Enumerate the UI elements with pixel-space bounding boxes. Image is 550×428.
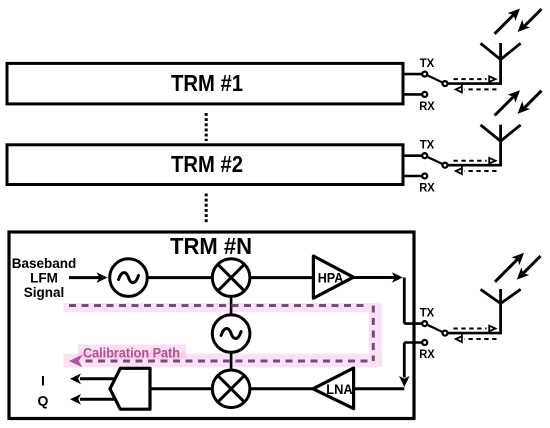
mixer MX2 bbox=[212, 370, 250, 408]
dashed TX direction arrow 3 bbox=[454, 326, 496, 333]
wire OSC2 to MX2 bbox=[230, 352, 233, 372]
switch pole circle 2 bbox=[443, 163, 448, 168]
TRM #N box bbox=[9, 232, 414, 419]
radiation arrow out 2 bbox=[495, 90, 520, 115]
svg-text:RX: RX bbox=[419, 99, 435, 113]
calibration path arrowhead bbox=[69, 355, 83, 368]
svg-text:Baseband: Baseband bbox=[12, 256, 77, 271]
antenna assembly 2 (for TRM #2) bbox=[403, 90, 542, 194]
oscillator OSC2 (LO) bbox=[212, 315, 250, 353]
wire TX stub 3 bbox=[404, 322, 421, 325]
amplifier LNA bbox=[313, 368, 354, 409]
svg-text:TX: TX bbox=[420, 138, 435, 152]
switch pole circle 3 bbox=[443, 331, 448, 336]
svg-text:I: I bbox=[41, 373, 45, 389]
antenna assembly 1 (for TRM #1) bbox=[403, 9, 542, 114]
label Baseband LFM Signal bbox=[12, 256, 77, 300]
dashed TX direction arrow 1 bbox=[454, 76, 496, 83]
amplifier HPA bbox=[313, 256, 353, 298]
radiation arrow out 3 bbox=[495, 253, 524, 282]
switch pole circle 1 bbox=[443, 81, 448, 86]
radiation arrow out 1 bbox=[495, 9, 520, 34]
radiation arrow in 1 bbox=[518, 9, 542, 32]
svg-text:RX: RX bbox=[419, 181, 435, 195]
calibration path highlight band bottom bbox=[64, 354, 378, 368]
wire TX stub 2 bbox=[403, 154, 422, 157]
dotted connector between TRM #2 and TRM #N bbox=[205, 194, 208, 223]
svg-text:Calibration Path: Calibration Path bbox=[83, 346, 180, 361]
RX port circle 3 bbox=[422, 340, 427, 345]
antenna 1 bbox=[481, 43, 521, 84]
switch arm 3 bbox=[428, 325, 442, 332]
TX port circle 3 bbox=[422, 321, 427, 326]
svg-text:TRM #1: TRM #1 bbox=[171, 70, 243, 96]
TRM #1 box bbox=[7, 63, 403, 104]
svg-text:HPA: HPA bbox=[318, 269, 344, 285]
calibration path text highlight bbox=[78, 345, 186, 361]
wire RX stub 3 bbox=[404, 341, 421, 344]
svg-text:RX: RX bbox=[419, 347, 435, 361]
wire MX1 to HPA bbox=[249, 276, 314, 279]
switch arm 1 bbox=[428, 76, 442, 83]
svg-text:Q: Q bbox=[38, 393, 49, 409]
wire switch to antenna 3 bbox=[448, 332, 502, 335]
arrow baseband input to oscillator OSC1 bbox=[69, 272, 108, 283]
TRM #2 box bbox=[7, 145, 403, 185]
TX port circle 1 bbox=[422, 72, 427, 77]
antenna assembly 3 (for TRM #N) bbox=[404, 253, 540, 361]
calibration path highlight band right vertical bbox=[369, 303, 382, 367]
RX port circle 1 bbox=[422, 92, 427, 97]
calibration path dashed line bottom bbox=[81, 360, 368, 363]
mixer MX1 bbox=[212, 259, 250, 297]
dashed RX direction arrow 1 bbox=[456, 84, 497, 92]
svg-text:TRM #N: TRM #N bbox=[170, 233, 252, 259]
wire switch to antenna 2 bbox=[448, 164, 502, 167]
dotted connector between TRM #1 and TRM #2 bbox=[205, 113, 208, 141]
calibration path text highlight bright stripe bbox=[78, 353, 186, 359]
svg-text:Signal: Signal bbox=[24, 285, 65, 300]
calibration path dashed line top bbox=[69, 304, 367, 307]
dashed RX direction arrow 2 bbox=[456, 166, 497, 174]
dashed TX direction arrow 2 bbox=[454, 158, 496, 165]
wire switch to antenna 1 bbox=[448, 82, 502, 85]
wire vertical TX bus bbox=[403, 278, 406, 324]
radiation arrow in 3 bbox=[517, 256, 541, 280]
wire RX stub 2 bbox=[403, 175, 422, 178]
arrow Q output bbox=[70, 394, 116, 405]
svg-text:TX: TX bbox=[420, 306, 435, 320]
TX port circle 2 bbox=[422, 153, 427, 158]
wire MX2 to IQ demodulator bbox=[150, 387, 213, 390]
calibration path dashed line vertical bbox=[372, 306, 375, 362]
antenna 3 bbox=[481, 289, 521, 333]
wire HPA to TX bus with arrow bbox=[353, 272, 403, 283]
svg-text:LFM: LFM bbox=[30, 271, 58, 286]
wire RX bus to LNA bbox=[354, 387, 405, 390]
calibration path highlight band top bbox=[64, 303, 378, 312]
RX port circle 2 bbox=[422, 174, 427, 179]
wire OSC1 to mixer MX1 bbox=[147, 276, 212, 279]
dashed RX direction arrow 3 bbox=[456, 334, 497, 342]
svg-text:TX: TX bbox=[420, 56, 435, 70]
switch arm 2 bbox=[428, 157, 442, 164]
arrow I output bbox=[70, 374, 116, 385]
wire RX stub 1 bbox=[403, 93, 422, 96]
svg-text:TRM #2: TRM #2 bbox=[171, 151, 243, 177]
oscillator OSC1 bbox=[110, 259, 148, 297]
wire TX stub 1 bbox=[403, 73, 422, 76]
wire MX1 to OSC2 bbox=[230, 296, 233, 316]
wire RX bus vertical with arrow down bbox=[399, 343, 410, 388]
IQ demodulator block bbox=[110, 368, 150, 409]
antenna 2 bbox=[481, 125, 521, 166]
radiation arrow in 2 bbox=[518, 91, 542, 114]
wire LNA to MX2 bbox=[249, 387, 313, 390]
svg-text:LNA: LNA bbox=[326, 381, 353, 397]
